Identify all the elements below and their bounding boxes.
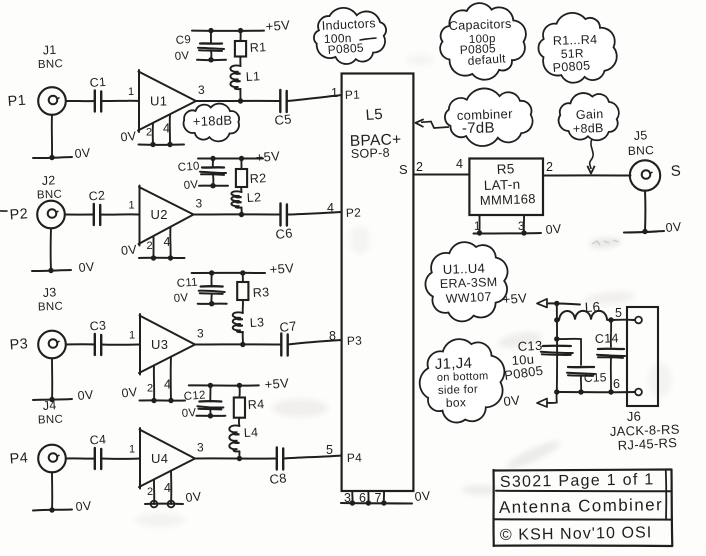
title block frame (493, 470, 672, 547)
svg-text:+5V: +5V (502, 290, 527, 307)
amplifier U1 (138, 70, 205, 132)
svg-text:P2: P2 (9, 206, 28, 223)
svg-text:5: 5 (615, 306, 622, 320)
svg-text:0V: 0V (173, 292, 188, 305)
svg-text:0V: 0V (665, 220, 682, 235)
R5 ground pins 1 and 3 (0V) (474, 215, 563, 237)
wire L5 pin 2 (S) to R5 pin 4 (413, 157, 469, 175)
svg-text:C7: C7 (279, 318, 298, 335)
combiner L5 (BPAC+ SOP-8) (342, 74, 424, 492)
U3 ground pins 2 and 4 (121, 357, 185, 403)
svg-text:BNC: BNC (38, 58, 64, 71)
svg-text:MMM168: MMM168 (480, 191, 536, 208)
svg-text:2: 2 (416, 160, 423, 174)
svg-text:C6: C6 (275, 225, 294, 242)
svg-text:0V: 0V (414, 489, 431, 504)
svg-text:4: 4 (456, 157, 463, 171)
capacitor C10 (bypass) (177, 159, 228, 192)
svg-text:4: 4 (164, 378, 171, 392)
BNC jack J2 (37, 173, 65, 228)
svg-text:R4: R4 (247, 397, 264, 412)
amplifier U2 (139, 186, 203, 246)
svg-text:C11: C11 (176, 277, 198, 290)
svg-text:Capacitors: Capacitors (449, 17, 512, 33)
svg-text:2: 2 (546, 160, 553, 174)
wire C5 to L5 pin 1 (287, 86, 361, 102)
svg-text:ERA-3SM: ERA-3SM (440, 275, 498, 291)
wire C1 to U1 pin 1 (101, 86, 139, 101)
node +5V junction (554, 301, 559, 306)
wire stub left of P2 (0, 210, 7, 212)
svg-text:RJ-45-RS: RJ-45-RS (617, 435, 677, 453)
svg-text:C1: C1 (89, 75, 107, 90)
node P1 (input port label) (7, 93, 26, 110)
U2 ground pins 2 and 4 (120, 227, 184, 261)
svg-text:J4: J4 (42, 398, 57, 413)
L5 ground pins 3,6,7 (0V) (341, 489, 431, 506)
svg-text:C4: C4 (89, 432, 107, 447)
wire J3 to C3 (66, 343, 95, 345)
svg-text:C14: C14 (595, 331, 619, 346)
J1 ground 0V (33, 115, 91, 161)
inductor L2 (231, 187, 261, 215)
resistor R3 (237, 273, 270, 300)
svg-text:+18dB: +18dB (193, 113, 233, 129)
svg-text:box: box (446, 395, 467, 410)
resistor R4 (234, 385, 265, 417)
U4 ground pins 2 and 4 (145, 471, 202, 508)
svg-text:P3: P3 (347, 333, 363, 348)
J4 ground 0V (33, 472, 92, 514)
capacitor C1 (89, 75, 107, 112)
svg-text:P1: P1 (7, 93, 26, 110)
svg-text:BNC: BNC (628, 143, 655, 158)
svg-text:1: 1 (331, 86, 338, 100)
capacitor C9 (bypass) (174, 31, 226, 63)
inductor L3 (233, 300, 265, 345)
capacitor C8 (269, 448, 288, 487)
wire J1 to C1 (66, 100, 95, 102)
svg-text:0V: 0V (174, 50, 189, 63)
svg-text:0V: 0V (181, 407, 196, 420)
amplifier U4 (139, 428, 204, 489)
svg-text:J1: J1 (42, 43, 57, 58)
svg-text:C5: C5 (274, 111, 293, 128)
wire C6 to L5 pin 4 (287, 201, 361, 220)
svg-text:0V: 0V (120, 129, 138, 145)
svg-text:4: 4 (164, 481, 171, 495)
svg-text:6: 6 (613, 377, 620, 391)
capacitor C15 (567, 367, 607, 392)
node U1 output junction (238, 98, 243, 103)
svg-text:SOP-8: SOP-8 (351, 146, 390, 161)
BNC jack J3 (38, 285, 66, 358)
resistor R1 (235, 31, 267, 57)
capacitor C14 (595, 331, 625, 392)
svg-text:P4: P4 (347, 450, 363, 465)
U1 ground pins 2 and 4 (120, 115, 184, 148)
svg-text:U1: U1 (150, 94, 167, 109)
svg-text:P0805: P0805 (327, 40, 364, 56)
svg-text:3: 3 (197, 327, 204, 341)
capacitor C11 (bypass) (173, 273, 226, 306)
svg-text:J5: J5 (633, 128, 648, 143)
wire +5V down to filter (554, 303, 559, 392)
svg-text:R3: R3 (252, 285, 269, 300)
svg-text:1: 1 (128, 86, 134, 98)
+5V off-page arrow (filter) (502, 290, 580, 307)
wire C2 to U2 pin 1 (100, 200, 139, 215)
inductor L6 (557, 299, 611, 320)
svg-text:Gain: Gain (576, 107, 604, 122)
svg-text:S: S (399, 162, 408, 177)
wire R5 pin 2 to J5 (543, 160, 631, 176)
svg-text:R2: R2 (249, 171, 266, 186)
svg-text:S: S (670, 162, 681, 180)
svg-text:C15: C15 (584, 370, 607, 385)
0V rail of filter (554, 377, 634, 395)
svg-text:C8: C8 (269, 470, 288, 487)
wire U3 pin 3 to C7 (195, 343, 281, 345)
svg-text:Antenna Combiner: Antenna Combiner (499, 495, 663, 517)
svg-text:P1: P1 (345, 87, 361, 102)
wire C3 to U3 pin 1 (101, 330, 140, 345)
svg-text:0V: 0V (74, 146, 91, 161)
svg-text:1: 1 (129, 444, 135, 456)
svg-text:5: 5 (326, 443, 333, 457)
svg-text:+5V: +5V (265, 17, 290, 34)
svg-text:0V: 0V (77, 388, 94, 403)
J5 ground 0V (624, 191, 682, 235)
wire L6 down to C14 (610, 320, 612, 347)
svg-text:LAT-n: LAT-n (484, 177, 521, 193)
svg-text:3: 3 (198, 83, 205, 97)
wire C4 to U4 pin 1 (101, 444, 140, 459)
svg-text:-7dB: -7dB (462, 119, 495, 137)
inductor L1 (230, 57, 260, 102)
svg-text:3: 3 (196, 197, 203, 211)
svg-text:L4: L4 (243, 425, 258, 440)
svg-text:© KSH Nov'10 OSI: © KSH Nov'10 OSI (500, 524, 653, 544)
connector J6 (JACK-8-RS / RJ-45-RS) (610, 307, 680, 453)
svg-text:3: 3 (197, 441, 204, 455)
wire U1 pin 3 to C5 (196, 100, 280, 102)
wire J4 to C4 (66, 457, 95, 459)
arrow from combiner cloud to L5 (416, 119, 450, 128)
annotation cloud: Inductors 100n P0805 (314, 8, 386, 64)
capacitor C4 (89, 432, 107, 469)
0V off-page arrow (filter) (503, 392, 557, 409)
annotation cloud +18dB (U1 gain) (184, 104, 239, 142)
svg-text:2: 2 (146, 127, 152, 139)
svg-text:U4: U4 (151, 451, 168, 466)
svg-text:4: 4 (164, 235, 171, 249)
node P4 (input port label) (9, 450, 28, 467)
svg-text:+5V: +5V (255, 148, 280, 165)
svg-text:U1..U4: U1..U4 (443, 261, 486, 277)
capacitor C7 (279, 318, 298, 355)
svg-text:2: 2 (147, 486, 153, 498)
svg-text:1: 1 (474, 221, 481, 233)
wire C8 to L5 pin 5 (283, 443, 362, 465)
svg-text:C2: C2 (88, 188, 106, 203)
svg-text:4: 4 (163, 122, 170, 136)
title: copyright KSH Nov'10 OSI (500, 524, 653, 544)
svg-text:U2: U2 (151, 207, 168, 222)
+5V rail (row 4) (189, 375, 290, 392)
svg-text:C9: C9 (175, 34, 191, 47)
svg-text:BNC: BNC (38, 414, 64, 427)
capacitor C13 (503, 338, 572, 383)
annotation cloud: Gain +8dB (559, 93, 619, 140)
svg-text:P2: P2 (346, 205, 362, 220)
BNC jack J4 (38, 398, 66, 472)
node P2 (input port label) (9, 206, 28, 223)
wire C7 to L5 pin 8 (288, 329, 363, 348)
svg-text:R5: R5 (496, 161, 515, 177)
svg-text:8: 8 (329, 329, 336, 343)
svg-text:0V: 0V (78, 260, 95, 275)
J3 ground 0V (33, 358, 94, 403)
svg-text:L5: L5 (365, 106, 383, 124)
svg-text:U3: U3 (151, 337, 168, 352)
svg-text:0V: 0V (185, 489, 203, 505)
inductor L4 (229, 418, 258, 459)
svg-text:0V: 0V (75, 499, 92, 514)
svg-text:default: default (467, 51, 506, 68)
J2 ground 0V (32, 228, 95, 275)
+5V rail (row 3) (192, 260, 295, 277)
capacitor C12 (bypass) (181, 385, 225, 420)
svg-text:L3: L3 (249, 315, 264, 330)
svg-text:J2: J2 (41, 173, 56, 188)
attenuator R5 (LAT-n MMM168) (469, 159, 543, 216)
svg-text:BNC: BNC (37, 189, 63, 202)
annotation cloud: R1..R4 51R P0805 (538, 13, 616, 83)
svg-text:BNC: BNC (38, 301, 64, 314)
capacitor C2 (88, 188, 106, 225)
svg-text:+5V: +5V (269, 260, 294, 277)
capacitor C5 (274, 90, 293, 128)
svg-text:C12: C12 (183, 389, 206, 403)
arrow from gain cloud to output wire (587, 139, 594, 174)
resistor R2 (236, 159, 267, 188)
annotation cloud: combiner -7dB (445, 88, 533, 146)
annotation cloud: Capacitors 100p P0805 default (440, 3, 526, 80)
svg-text:2: 2 (147, 383, 153, 395)
wire J2 to C2 (65, 214, 94, 216)
wire U4 pin 3 to C8 (195, 457, 277, 459)
node P3 (input port label) (9, 336, 28, 353)
svg-text:0V: 0V (120, 242, 138, 258)
+5V rail (row 1) (192, 17, 291, 34)
svg-text:C10: C10 (177, 160, 200, 174)
svg-text:0V: 0V (121, 385, 139, 401)
svg-text:0V: 0V (503, 392, 521, 409)
node U4 output junction (237, 456, 242, 461)
svg-text:4: 4 (327, 201, 334, 215)
node U3 output junction (240, 342, 245, 347)
svg-text:0V: 0V (183, 179, 198, 192)
svg-text:P0805: P0805 (552, 58, 591, 75)
svg-text:J6: J6 (627, 409, 642, 424)
svg-text:L6: L6 (584, 299, 600, 315)
capacitor C6 (275, 204, 294, 242)
svg-text:+5V: +5V (264, 375, 289, 392)
amplifier U3 (139, 314, 204, 375)
wire L6 to J6 pin 5 (608, 306, 634, 323)
svg-text:P3: P3 (9, 336, 28, 353)
svg-text:on bottom: on bottom (437, 370, 489, 384)
svg-text:+8dB: +8dB (573, 121, 604, 136)
+5V rail (row 2) (198, 148, 281, 165)
svg-text:L2: L2 (246, 190, 261, 205)
svg-text:J3: J3 (42, 285, 57, 300)
svg-text:S3021 Page 1 of 1: S3021 Page 1 of 1 (500, 471, 655, 491)
capacitor C3 (89, 318, 107, 355)
svg-text:L1: L1 (245, 69, 260, 84)
BNC jack J1 (38, 43, 66, 115)
svg-text:0V: 0V (545, 222, 562, 237)
wire U2 pin 3 to C6 (194, 213, 281, 215)
svg-text:2: 2 (147, 240, 153, 252)
svg-text:3: 3 (518, 221, 525, 233)
node U2 output junction (239, 212, 244, 217)
wire C13 branch to C15 (557, 339, 581, 365)
svg-text:WW107: WW107 (445, 290, 492, 306)
svg-text:P4: P4 (9, 450, 28, 467)
svg-text:1: 1 (129, 330, 135, 342)
title: S3021 Page 1 of 1 (500, 471, 655, 491)
svg-text:R1: R1 (249, 40, 266, 55)
annotation cloud: J1,J4 on bottom side for box (420, 339, 505, 422)
svg-text:C3: C3 (89, 318, 107, 333)
svg-text:1: 1 (129, 200, 135, 212)
title: Antenna Combiner (499, 495, 663, 517)
annotation cloud: U1..U4 ERA-3SM WW107 (425, 242, 507, 321)
BNC jack J5 (628, 128, 682, 190)
